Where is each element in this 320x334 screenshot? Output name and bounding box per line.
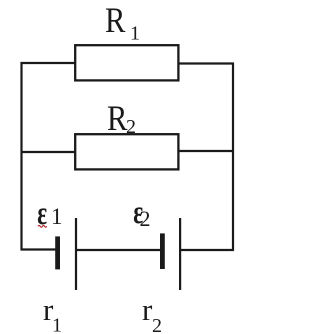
svg-text:R: R <box>105 1 126 41</box>
label epsilon1 <box>37 195 62 232</box>
spellcheck squiggle under epsilon1 <box>38 225 47 227</box>
battery E1 negative plate <box>55 236 60 269</box>
wire bottom right segment <box>181 249 235 251</box>
label r2 <box>142 292 162 334</box>
battery E1 positive plate <box>75 218 77 290</box>
wire bottom middle segment <box>77 249 161 251</box>
svg-text:2: 2 <box>152 315 162 334</box>
resistor R1 <box>75 45 178 80</box>
wire R2 right lead <box>177 150 234 152</box>
battery E2 positive plate <box>179 218 181 290</box>
svg-text:1: 1 <box>51 204 63 229</box>
label R1 <box>105 1 140 45</box>
wire left vertical bus <box>20 62 22 251</box>
svg-text:1: 1 <box>130 23 140 45</box>
wire right vertical bus <box>232 63 234 251</box>
label r1 <box>43 292 62 334</box>
wire R2 left lead <box>21 151 77 153</box>
svg-text:R: R <box>107 99 128 139</box>
wire R1 left lead <box>21 62 77 64</box>
label epsilon2 <box>133 194 150 231</box>
svg-text:2: 2 <box>140 206 151 231</box>
wire bottom left segment <box>21 248 56 250</box>
resistor R2 <box>75 134 178 169</box>
battery E2 negative plate <box>160 233 165 269</box>
label R2 <box>107 99 136 139</box>
wire R1 right lead <box>177 62 234 64</box>
svg-text:1: 1 <box>52 315 62 334</box>
